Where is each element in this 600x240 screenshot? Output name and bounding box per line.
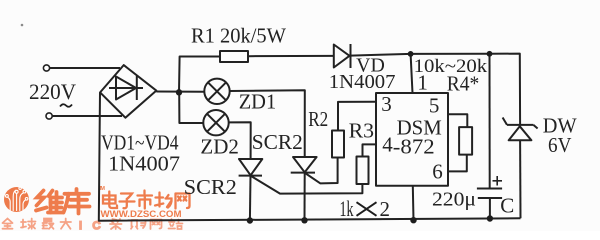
svg-text:ZD2: ZD2: [200, 135, 239, 159]
svg-text:1k: 1k: [340, 196, 354, 221]
svg-text:5: 5: [429, 94, 440, 118]
svg-text:SCR2: SCR2: [252, 130, 303, 154]
svg-text:3: 3: [381, 92, 392, 116]
svg-text:C: C: [500, 194, 514, 218]
svg-text:R3: R3: [349, 119, 375, 143]
svg-text:6: 6: [432, 160, 443, 184]
svg-text:1N4007: 1N4007: [329, 71, 396, 93]
svg-text:1N4007: 1N4007: [108, 152, 180, 176]
svg-text:220V: 220V: [29, 79, 76, 104]
svg-text:2: 2: [380, 197, 391, 221]
svg-text:R4*: R4*: [447, 72, 480, 96]
svg-text:WWW.DZSC.COM: WWW.DZSC.COM: [101, 209, 182, 219]
svg-text:R2: R2: [308, 107, 328, 131]
svg-text:R1 20k/5W: R1 20k/5W: [191, 24, 286, 48]
svg-text:4: 4: [382, 133, 393, 157]
svg-text:I: I: [79, 220, 82, 231]
svg-text:-872: -872: [393, 135, 435, 159]
svg-text:6V: 6V: [548, 133, 571, 157]
svg-text:ZD1: ZD1: [239, 90, 277, 114]
svg-text:1: 1: [417, 71, 428, 95]
svg-text:220μ: 220μ: [432, 189, 476, 211]
svg-text:SCR2: SCR2: [184, 175, 237, 199]
